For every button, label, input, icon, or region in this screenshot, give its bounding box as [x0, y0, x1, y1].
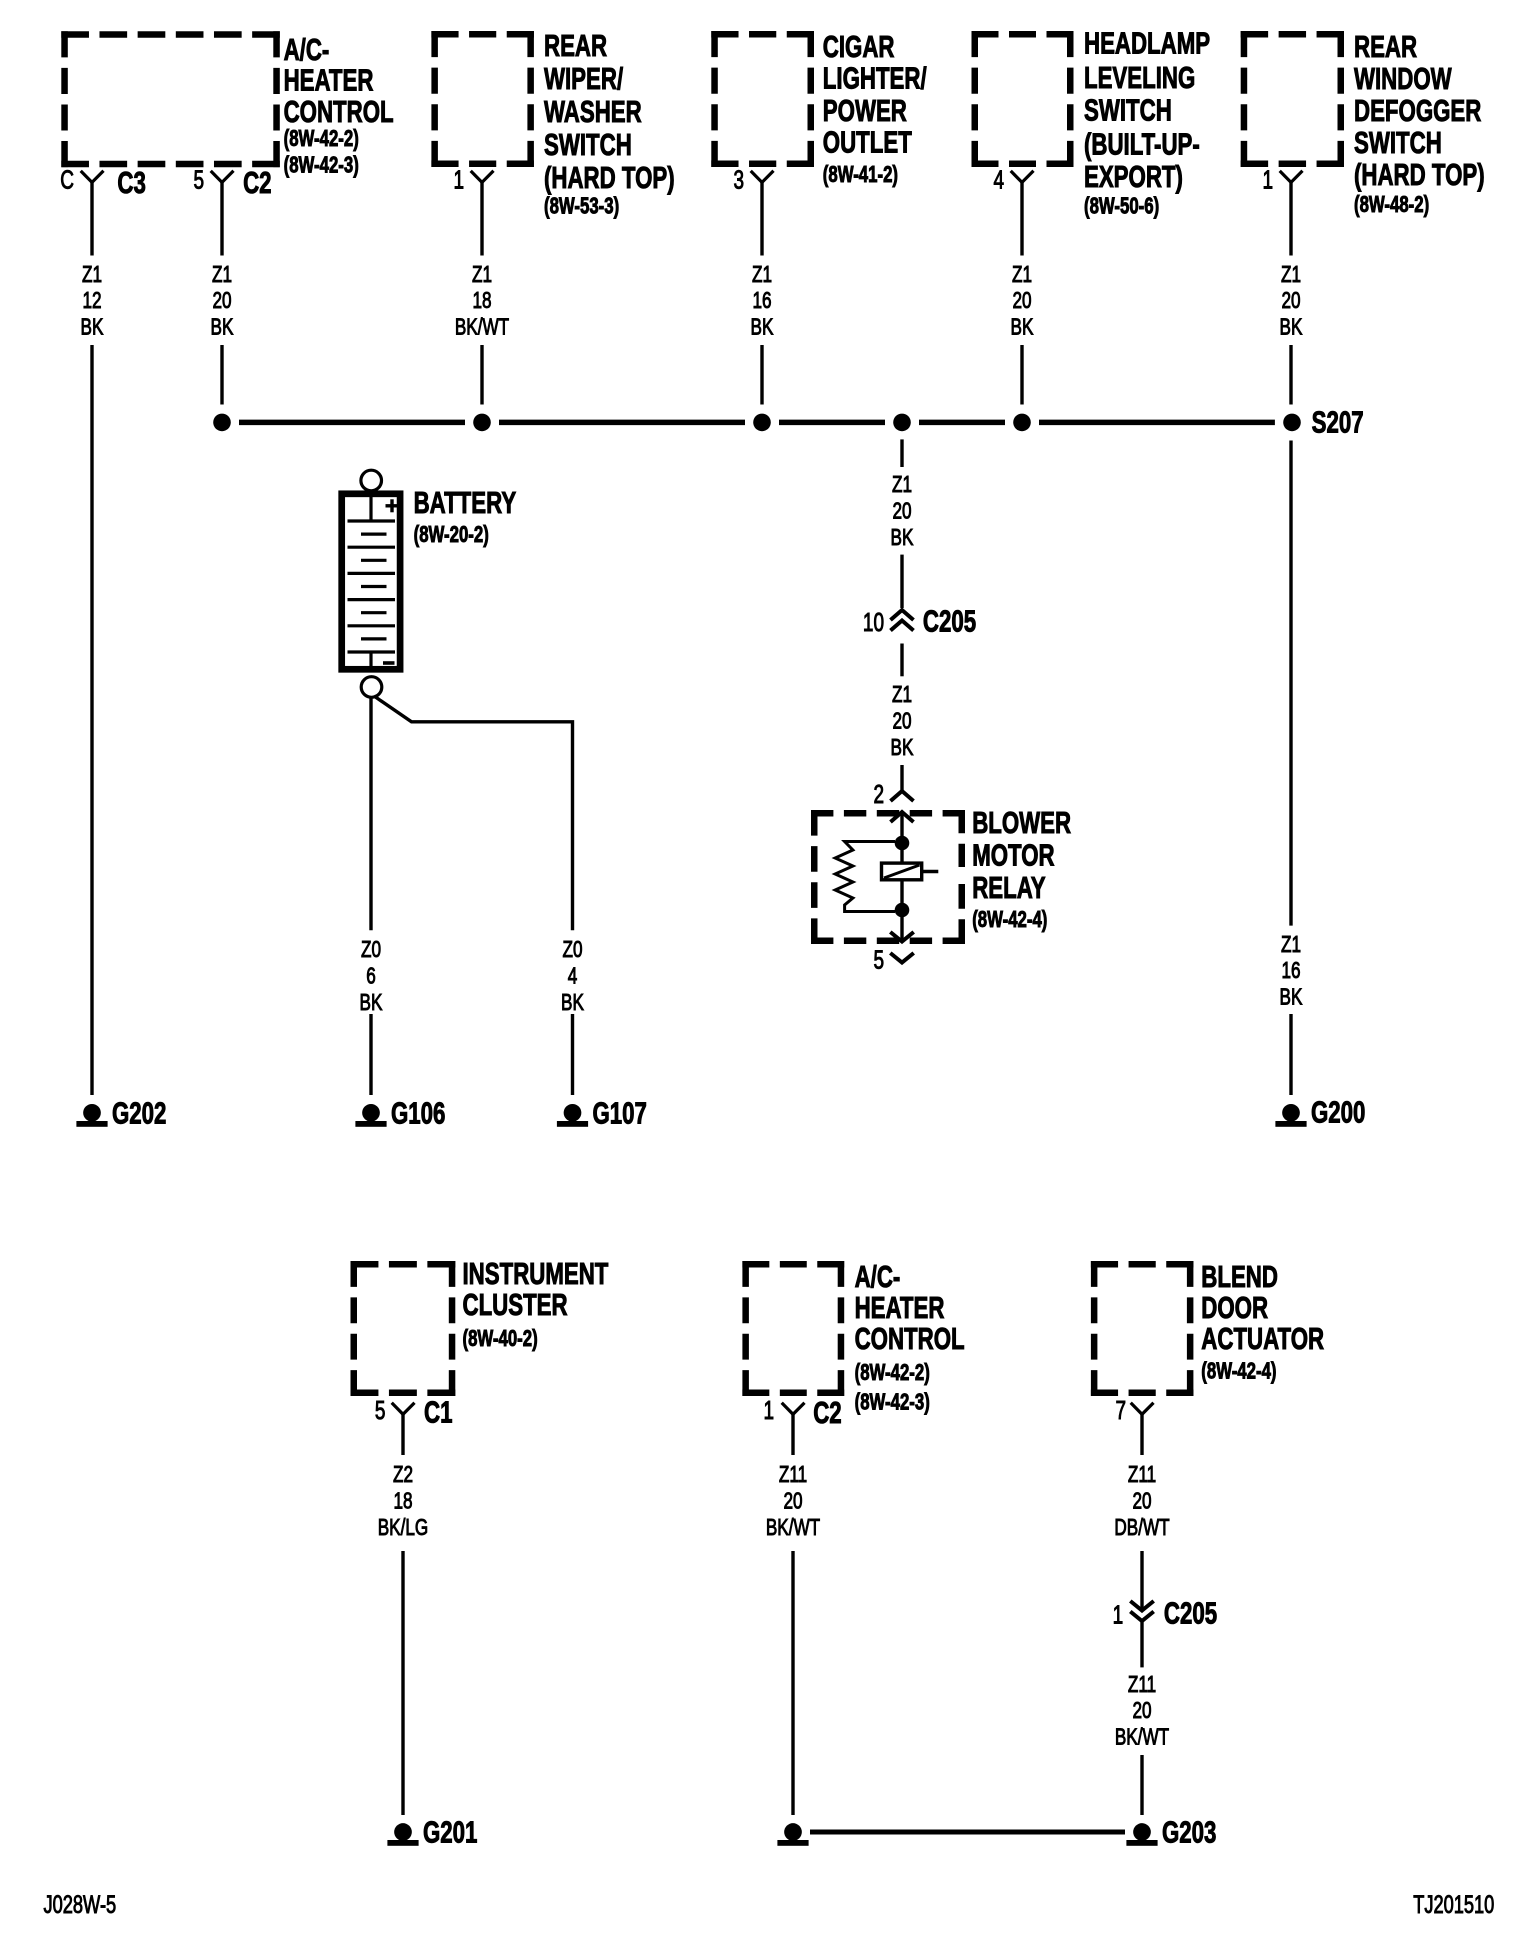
wire: Z1 20 BK from C205 down to blower motor relay pin 2	[900, 644, 903, 792]
wire value label Z2 18 BK/LG	[378, 1462, 429, 1541]
wire: link to ground G203	[810, 1830, 1125, 1835]
wire value label Z0 4 BK	[561, 937, 584, 1016]
svg-text:HEATER: HEATER	[855, 1290, 945, 1324]
svg-text:16: 16	[752, 288, 771, 314]
connector C2 (A/C-heater control), pin 5	[193, 164, 271, 199]
svg-text:20: 20	[1281, 288, 1300, 314]
svg-text:1: 1	[1113, 1600, 1124, 1630]
svg-text:WIPER/: WIPER/	[544, 62, 624, 96]
relay pin 2 connector chevron	[873, 779, 913, 809]
connector pin 7 (blend door actuator)	[1115, 1395, 1153, 1425]
svg-text:CLUSTER: CLUSTER	[463, 1288, 568, 1322]
svg-text:BK/WT: BK/WT	[455, 314, 510, 340]
inline connector C205, pin 10	[863, 604, 976, 638]
splice S207	[1283, 405, 1363, 439]
svg-text:(8W-53-3): (8W-53-3)	[544, 194, 619, 219]
component box: A/C-HEATER CONTROL (bottom)	[742, 1259, 964, 1415]
svg-text:C: C	[60, 164, 74, 194]
svg-text:OUTLET: OUTLET	[823, 125, 913, 159]
wire value label Z1 20 BK	[1280, 261, 1303, 340]
svg-text:Z11: Z11	[779, 1462, 807, 1488]
connector pin 3 (cigar lighter/power outlet)	[733, 164, 773, 194]
svg-text:LEVELING: LEVELING	[1084, 60, 1195, 94]
svg-text:G202: G202	[112, 1096, 166, 1130]
svg-text:SWITCH: SWITCH	[1084, 93, 1172, 127]
component box: CIGAR LIGHTER/POWER OUTLET	[711, 29, 927, 187]
wire: Z11 20 BK/WT A/C-heater control to ground	[791, 1414, 794, 1815]
wire value label Z1 16 BK	[751, 261, 774, 340]
ground G202	[76, 1096, 166, 1130]
svg-text:EXPORT): EXPORT)	[1084, 160, 1183, 194]
wire: Z11 20 DB/WT blend door actuator to C205	[1140, 1414, 1143, 1608]
svg-text:BK/WT: BK/WT	[1115, 1724, 1170, 1750]
svg-text:1: 1	[453, 164, 464, 194]
wire: Z1 20 BK from headlamp leveling switch down to bus	[1020, 182, 1023, 404]
wire value label Z1 20 BK	[211, 261, 234, 340]
svg-text:C1: C1	[424, 1395, 453, 1429]
connector C1 (instrument cluster), pin 5	[375, 1395, 453, 1429]
svg-text:6: 6	[366, 963, 376, 989]
svg-text:BK: BK	[81, 314, 104, 340]
ground G203	[1126, 1815, 1216, 1849]
svg-text:HEADLAMP: HEADLAMP	[1084, 26, 1210, 60]
svg-text:Z1: Z1	[892, 682, 912, 708]
svg-text:C205: C205	[1164, 1596, 1217, 1630]
svg-text:INSTRUMENT: INSTRUMENT	[463, 1256, 609, 1290]
svg-text:20: 20	[1012, 288, 1031, 314]
connector C3 (A/C-heater control), pin C	[60, 164, 146, 199]
svg-text:12: 12	[82, 288, 101, 314]
svg-text:18: 18	[393, 1488, 412, 1514]
svg-text:20: 20	[892, 498, 911, 524]
svg-text:J028W-5: J028W-5	[44, 1890, 117, 1919]
svg-text:Z11: Z11	[1128, 1671, 1156, 1697]
svg-text:WASHER: WASHER	[544, 95, 642, 129]
connector pin 4 (headlamp leveling switch)	[993, 164, 1033, 194]
svg-text:Z1: Z1	[1012, 261, 1032, 287]
svg-text:C205: C205	[923, 604, 976, 638]
svg-text:Z1: Z1	[212, 261, 232, 287]
ground G200	[1275, 1095, 1365, 1129]
component box: BLEND DOOR ACTUATOR	[1091, 1259, 1324, 1396]
component box: BLOWER MOTOR RELAY	[811, 805, 1071, 944]
svg-text:BLEND: BLEND	[1201, 1259, 1278, 1293]
wire: Z1 20 BK from rear window defogger switch down to splice S207	[1289, 182, 1292, 404]
svg-text:Z1: Z1	[892, 471, 912, 497]
svg-text:20: 20	[892, 708, 911, 734]
junction dot inside relay (top)	[895, 836, 910, 851]
svg-text:TJ201510: TJ201510	[1413, 1890, 1494, 1919]
svg-text:RELAY: RELAY	[972, 871, 1046, 905]
svg-text:C2: C2	[243, 166, 271, 200]
svg-text:G203: G203	[1162, 1815, 1216, 1849]
ground G107	[557, 1096, 647, 1130]
svg-text:CIGAR: CIGAR	[823, 29, 895, 63]
svg-text:(8W-42-2): (8W-42-2)	[284, 126, 359, 151]
junction dot at blower motor relay branch	[893, 414, 911, 432]
svg-text:18: 18	[472, 288, 491, 314]
junction dot inside relay (bottom)	[895, 903, 910, 918]
svg-text:Z1: Z1	[472, 261, 492, 287]
wire value label Z11 20 BK/WT	[766, 1462, 821, 1541]
component box: REAR WIPER/WASHER SWITCH (HARD TOP)	[431, 29, 674, 219]
svg-text:BK: BK	[1280, 314, 1303, 340]
svg-text:G201: G201	[423, 1815, 478, 1849]
svg-text:REAR: REAR	[1354, 30, 1417, 64]
svg-text:BATTERY: BATTERY	[414, 486, 517, 520]
relay pin 5 exit chevrons	[873, 932, 913, 974]
svg-text:(8W-41-2): (8W-41-2)	[823, 162, 898, 187]
wire value label Z1 20 BK	[891, 471, 914, 550]
wire: Z1 12 BK from C3 down to ground G202	[90, 182, 93, 1095]
component box: INSTRUMENT CLUSTER	[351, 1256, 609, 1396]
component box: HEADLAMP LEVELING SWITCH (BUILT-UP-EXPORT)	[972, 26, 1211, 219]
svg-text:BK: BK	[561, 989, 584, 1015]
wire value label Z1 20 BK	[1011, 261, 1034, 340]
svg-text:BK: BK	[1280, 984, 1303, 1010]
svg-text:DB/WT: DB/WT	[1114, 1514, 1170, 1540]
wire: Z1 18 BK/WT from rear wiper switch down to bus	[480, 182, 483, 404]
svg-text:Z1: Z1	[82, 261, 102, 287]
svg-text:1: 1	[1262, 164, 1273, 194]
svg-text:(8W-42-2): (8W-42-2)	[855, 1361, 930, 1386]
svg-text:5: 5	[193, 164, 204, 194]
junction dot at headlamp leveling wire	[1013, 414, 1031, 432]
svg-text:BK: BK	[360, 989, 383, 1015]
connector pin 1 (rear window defogger switch)	[1262, 164, 1302, 194]
relay entry chevron on box edge	[891, 812, 914, 822]
svg-text:LIGHTER/: LIGHTER/	[823, 61, 927, 95]
svg-text:DEFOGGER: DEFOGGER	[1354, 94, 1481, 128]
svg-text:20: 20	[212, 288, 231, 314]
svg-text:1: 1	[763, 1395, 774, 1425]
svg-text:BK/WT: BK/WT	[766, 1514, 821, 1540]
junction dot at cigar lighter wire	[753, 414, 771, 432]
svg-text:5: 5	[873, 945, 884, 975]
drawing number J028W-5	[44, 1890, 117, 1919]
wire: Z1 20 BK from bus down to connector C205	[900, 439, 903, 608]
svg-text:CONTROL: CONTROL	[284, 95, 394, 129]
svg-text:(8W-42-4): (8W-42-4)	[972, 907, 1047, 932]
svg-text:G107: G107	[593, 1096, 647, 1130]
svg-text:BK: BK	[751, 314, 774, 340]
svg-text:BK: BK	[1011, 314, 1034, 340]
wire: Z1 16 BK from cigar lighter down to bus	[760, 182, 763, 404]
svg-text:2: 2	[873, 779, 884, 809]
svg-text:S207: S207	[1312, 405, 1364, 439]
svg-text:BK: BK	[211, 314, 234, 340]
wire: Z0 4 BK battery negative to ground G107	[374, 696, 573, 1095]
svg-text:4: 4	[568, 963, 578, 989]
ground G201	[387, 1815, 477, 1849]
svg-text:Z0: Z0	[562, 937, 582, 963]
svg-text:5: 5	[375, 1395, 386, 1425]
wire value label Z0 6 BK	[360, 937, 383, 1016]
svg-text:20: 20	[1132, 1488, 1151, 1514]
svg-text:(8W-20-2): (8W-20-2)	[414, 522, 489, 547]
svg-text:SWITCH: SWITCH	[544, 128, 632, 162]
wire value label Z11 20 BK/WT	[1115, 1671, 1170, 1750]
svg-text:WINDOW: WINDOW	[1354, 62, 1452, 96]
svg-text:Z2: Z2	[393, 1462, 413, 1488]
wire: Z0 6 BK battery negative to ground G106	[369, 698, 372, 1095]
svg-text:Z0: Z0	[361, 937, 381, 963]
svg-text:Z1: Z1	[1281, 931, 1301, 957]
svg-text:(8W-50-6): (8W-50-6)	[1084, 194, 1159, 219]
wire: horizontal ground bus to splice S207	[239, 420, 1275, 426]
svg-text:10: 10	[863, 607, 884, 637]
svg-text:G106: G106	[391, 1096, 445, 1130]
svg-text:(8W-48-2): (8W-48-2)	[1354, 192, 1429, 217]
svg-text:Z11: Z11	[1128, 1462, 1156, 1488]
inline connector C205, pin 1	[1113, 1596, 1218, 1630]
wire value label Z1 20 BK	[891, 682, 914, 761]
svg-text:MOTOR: MOTOR	[972, 838, 1054, 872]
svg-text:BK/LG: BK/LG	[378, 1514, 429, 1540]
svg-text:ACTUATOR: ACTUATOR	[1201, 1322, 1324, 1356]
svg-text:(HARD TOP): (HARD TOP)	[544, 161, 675, 195]
svg-text:REAR: REAR	[544, 29, 607, 63]
svg-text:20: 20	[783, 1488, 802, 1514]
junction dot at rear wiper wire	[473, 414, 491, 432]
svg-text:(BUILT-UP-: (BUILT-UP-	[1084, 127, 1200, 161]
ground splice (A/C-heater control drop)	[777, 1823, 808, 1846]
wire: Z11 20 BK/WT from C205 to ground G203	[1140, 1621, 1143, 1815]
wire value label Z1 16 BK	[1280, 931, 1303, 1010]
svg-text:POWER: POWER	[823, 94, 907, 128]
ground G106	[355, 1096, 445, 1130]
svg-text:(8W-42-3): (8W-42-3)	[855, 1390, 930, 1415]
wire: Z1 20 BK from C2 down to bus	[220, 182, 223, 404]
svg-text:DOOR: DOOR	[1201, 1290, 1268, 1324]
svg-text:C2: C2	[813, 1396, 841, 1430]
svg-text:4: 4	[993, 164, 1004, 194]
wire inside relay: pin 2 to coil to pin 5	[900, 812, 903, 942]
svg-text:3: 3	[733, 164, 744, 194]
sheet code TJ201510	[1413, 1890, 1494, 1919]
svg-text:A/C-: A/C-	[855, 1259, 901, 1293]
svg-text:16: 16	[1281, 958, 1300, 984]
svg-text:Z1: Z1	[752, 261, 772, 287]
wire value label Z1 12 BK	[81, 261, 104, 340]
connector pin 1 (rear wiper/washer switch)	[453, 164, 493, 194]
wire value label Z11 20 DB/WT	[1114, 1462, 1170, 1541]
svg-text:BK: BK	[891, 734, 914, 760]
junction dot at C2 wire	[213, 414, 231, 432]
component box: A/C-HEATER CONTROL	[61, 31, 393, 178]
connector C2 (A/C-heater control bottom), pin 1	[763, 1395, 841, 1430]
svg-text:(HARD TOP): (HARD TOP)	[1354, 158, 1485, 192]
svg-text:G200: G200	[1311, 1095, 1365, 1129]
svg-text:Z1: Z1	[1281, 261, 1301, 287]
svg-text:7: 7	[1115, 1395, 1126, 1425]
wire value label Z1 18 BK/WT	[455, 261, 510, 340]
svg-text:(8W-42-4): (8W-42-4)	[1201, 1359, 1276, 1384]
wire: Z1 16 BK from splice S207 down to ground G200	[1289, 441, 1292, 1096]
wire: Z2 18 BK/LG instrument cluster to ground G201	[401, 1414, 404, 1815]
svg-text:(8W-42-3): (8W-42-3)	[284, 153, 359, 178]
svg-text:CONTROL: CONTROL	[855, 1322, 965, 1356]
svg-text:20: 20	[1132, 1698, 1151, 1724]
svg-text:SWITCH: SWITCH	[1354, 126, 1442, 160]
svg-text:C3: C3	[117, 166, 145, 200]
svg-text:BLOWER: BLOWER	[972, 805, 1071, 839]
component box: REAR WINDOW DEFOGGER SWITCH (HARD TOP)	[1241, 30, 1485, 218]
svg-text:HEATER: HEATER	[284, 63, 374, 97]
svg-text:A/C-: A/C-	[284, 33, 330, 67]
battery B+ with terminals and plates	[342, 470, 517, 697]
svg-text:(8W-40-2): (8W-40-2)	[463, 1327, 538, 1352]
relay coil element with diagonal and stub	[882, 863, 939, 880]
svg-text:BK: BK	[891, 524, 914, 550]
resistor inside relay (parallel with coil)	[835, 842, 895, 912]
